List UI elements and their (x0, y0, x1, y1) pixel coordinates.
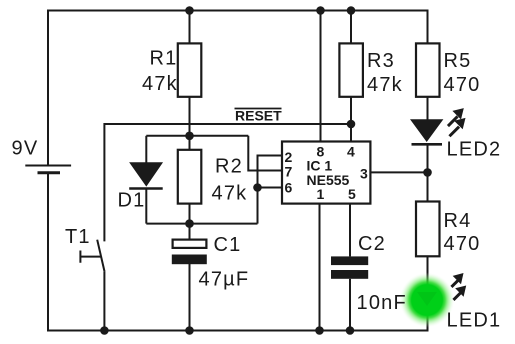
junction dot ground pin1 (315, 326, 324, 335)
diode D1 cathode bar (129, 187, 163, 190)
svg-text:5: 5 (348, 186, 356, 202)
LED1 core (412, 285, 442, 315)
svg-text:NE555: NE555 (307, 172, 350, 188)
LED1 hidden triangle hint (417, 292, 437, 306)
wire R4 bottom to LED1 (427, 256, 429, 283)
pushbutton T1 lever (97, 240, 104, 272)
wire pin 6 stub (258, 187, 283, 189)
wire LED2 cathode to pin3 node (427, 144, 429, 172)
capacitor C1 negative plate (172, 255, 207, 265)
wire pin 5 to C2 top (349, 204, 351, 257)
wire pin 1 to ground rail (319, 204, 321, 331)
RESET overline (235, 108, 282, 110)
diode D1 triangle (130, 163, 162, 186)
svg-text:LED2: LED2 (447, 139, 502, 161)
svg-text:D1: D1 (118, 190, 146, 212)
svg-text:RESET: RESET (235, 108, 282, 124)
wire node R1-R2 junction to D1 top and to pin7 riser (146, 135, 248, 137)
battery BT1 9V positive plate (25, 165, 71, 167)
LED2 arrow 2 (448, 118, 465, 137)
battery BT1 9V negative plate (38, 171, 61, 174)
svg-text:47k: 47k (367, 74, 403, 96)
capacitor C2 plate lower (331, 270, 368, 279)
svg-text:9V: 9V (12, 138, 39, 160)
wire D1 bottom drop (145, 189, 147, 224)
wire R1 bottom to R2 top (189, 97, 191, 150)
wire R2 bottom to C1 top (189, 204, 191, 239)
pushbutton T1 actuator (80, 251, 101, 263)
junction dot R2-C1-D1-pins26 (185, 219, 194, 228)
svg-text:10nF: 10nF (357, 292, 407, 314)
LED1 arrow 1 (450, 273, 463, 288)
wire C1 bottom to ground rail (189, 264, 191, 331)
svg-text:R5: R5 (444, 50, 472, 72)
wire pin 2 and pin 6 tie to C1 top node (258, 156, 283, 224)
wire ground rail from battery minus to LED1 (48, 174, 428, 331)
wire top supply rail with left drop to battery and right drop to R5 (48, 11, 428, 166)
svg-text:7: 7 (285, 164, 293, 180)
wire R1 top (189, 11, 191, 44)
svg-text:R4: R4 (444, 210, 472, 232)
junction dot ground C1 (185, 326, 194, 335)
LED1 glow (400, 273, 455, 328)
junction dot pin3 / LED2 / R4 (423, 168, 432, 177)
capacitor C2 plate upper (331, 256, 368, 265)
LED1 arrow 2 (452, 286, 466, 302)
resistor R4 body (416, 202, 440, 257)
svg-text:3: 3 (360, 166, 368, 182)
resistor R1 body (178, 43, 202, 96)
wire C2 bottom to ground rail (349, 279, 351, 331)
resistor R5 body (416, 43, 440, 96)
svg-text:R3: R3 (367, 50, 395, 72)
wire R3 top (350, 11, 352, 44)
svg-text:1: 1 (317, 186, 325, 202)
junction dot ground T1 (100, 326, 109, 335)
wire R3 bottom to pin 4 (350, 97, 352, 142)
wire R5 bottom to LED2 anode (427, 97, 429, 120)
wire RESET net from T1 to pin 4 / R3 junction (104, 124, 351, 241)
wire pin 8 from supply rail (320, 11, 322, 142)
svg-text:470: 470 (444, 74, 481, 96)
svg-text:C2: C2 (358, 233, 386, 255)
LED2 triangle (411, 120, 442, 142)
wire pin 3 to LED2/R4 junction (370, 171, 427, 173)
svg-text:6: 6 (285, 180, 293, 196)
svg-text:47k: 47k (142, 73, 178, 95)
wire pin 7 link to R1-R2 junction (248, 136, 282, 171)
wire D1 top drop (145, 136, 147, 163)
capacitor C1 positive plate (173, 240, 207, 248)
svg-text:LED1: LED1 (447, 310, 502, 332)
junction dot top rail R3 (347, 6, 356, 15)
resistor R2 body (178, 150, 202, 204)
junction dot R1-R2-D1-pin7 (185, 132, 194, 141)
junction dot ground C2 (346, 326, 355, 335)
junction dot pin 6 tie (253, 183, 262, 192)
IC U1 NE555 body (282, 142, 370, 204)
svg-text:C1: C1 (214, 234, 242, 256)
junction dot top rail pin8 (316, 6, 325, 15)
LED2 arrow 1 (447, 108, 464, 127)
pushbutton T1 lower contact (103, 272, 105, 331)
svg-text:8: 8 (317, 144, 325, 160)
svg-text:R1: R1 (150, 48, 178, 70)
resistor R3 body (339, 43, 363, 96)
svg-text:4: 4 (347, 144, 355, 160)
svg-text:T1: T1 (65, 226, 91, 248)
svg-text:R2: R2 (215, 156, 243, 178)
svg-text:470: 470 (444, 233, 481, 255)
wire pin3 node to R4 top (427, 172, 429, 201)
junction dot top rail R1 (185, 6, 194, 15)
LED2 cathode bar (412, 143, 443, 146)
svg-text:47µF: 47µF (199, 269, 250, 291)
junction dot RESET / R3 / pin4 (347, 120, 356, 129)
svg-text:47k: 47k (212, 183, 248, 205)
wire bottom junction D1/C1/pins2-6 (146, 223, 257, 225)
